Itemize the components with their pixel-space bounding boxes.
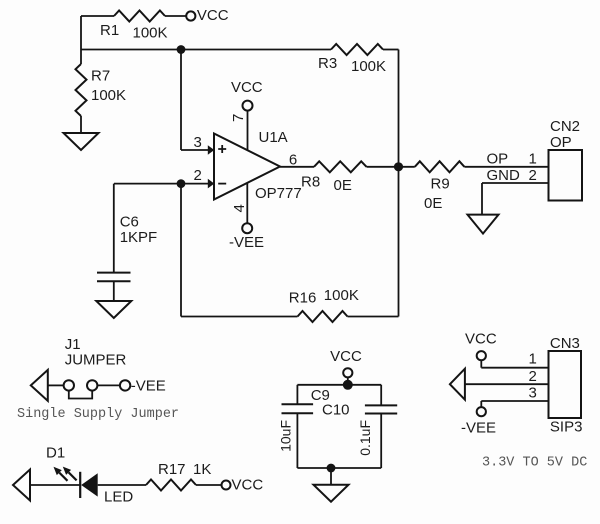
- svg-text:VCC: VCC: [231, 79, 263, 96]
- svg-text:4: 4: [231, 204, 248, 212]
- svg-text:CN2: CN2: [550, 118, 580, 135]
- svg-text:OP: OP: [487, 151, 509, 168]
- svg-text:CN3: CN3: [550, 335, 580, 352]
- svg-text:1KPF: 1KPF: [120, 229, 158, 246]
- svg-text:C10: C10: [322, 402, 350, 419]
- svg-text:2: 2: [529, 167, 537, 184]
- svg-text:3: 3: [194, 134, 202, 151]
- svg-text:-VEE: -VEE: [461, 420, 496, 437]
- svg-text:R8: R8: [301, 174, 320, 191]
- svg-text:-VEE: -VEE: [131, 377, 166, 394]
- svg-text:VCC: VCC: [330, 348, 362, 365]
- svg-text:3.3V TO 5V DC: 3.3V TO 5V DC: [482, 456, 587, 471]
- svg-text:0E: 0E: [334, 177, 352, 194]
- svg-text:0E: 0E: [424, 195, 442, 212]
- svg-text:R16: R16: [289, 290, 317, 307]
- svg-text:R7: R7: [91, 68, 110, 85]
- svg-text:R17: R17: [158, 461, 186, 478]
- svg-text:VCC: VCC: [465, 331, 497, 348]
- svg-text:R3: R3: [318, 55, 337, 72]
- svg-text:-VEE: -VEE: [229, 234, 264, 251]
- svg-text:VCC: VCC: [197, 7, 229, 24]
- svg-text:LED: LED: [104, 489, 133, 506]
- svg-text:Single Supply Jumper: Single Supply Jumper: [17, 407, 179, 422]
- svg-text:2: 2: [194, 167, 202, 184]
- svg-text:OP: OP: [550, 134, 572, 151]
- svg-text:R1: R1: [100, 22, 119, 39]
- svg-text:7: 7: [230, 114, 247, 122]
- svg-text:100K: 100K: [133, 25, 168, 42]
- svg-text:3: 3: [529, 384, 537, 401]
- svg-text:6: 6: [289, 152, 297, 169]
- svg-text:D1: D1: [46, 445, 65, 462]
- svg-text:R9: R9: [431, 176, 450, 193]
- svg-text:100K: 100K: [351, 58, 386, 75]
- svg-text:100K: 100K: [324, 287, 359, 304]
- svg-text:OP777: OP777: [255, 185, 302, 202]
- svg-text:1: 1: [529, 351, 537, 368]
- svg-text:10uF: 10uF: [278, 420, 294, 452]
- svg-text:0.1uF: 0.1uF: [357, 420, 373, 456]
- svg-text:U1A: U1A: [259, 129, 288, 146]
- svg-text:2: 2: [529, 368, 537, 385]
- svg-text:SIP3: SIP3: [550, 419, 583, 436]
- svg-text:100K: 100K: [91, 87, 126, 104]
- svg-text:GND: GND: [487, 167, 521, 184]
- svg-text:JUMPER: JUMPER: [65, 352, 127, 369]
- svg-text:VCC: VCC: [232, 477, 264, 494]
- svg-text:J1: J1: [65, 336, 81, 353]
- svg-text:1K: 1K: [193, 461, 211, 478]
- svg-text:1: 1: [529, 151, 537, 168]
- svg-text:C6: C6: [120, 213, 139, 230]
